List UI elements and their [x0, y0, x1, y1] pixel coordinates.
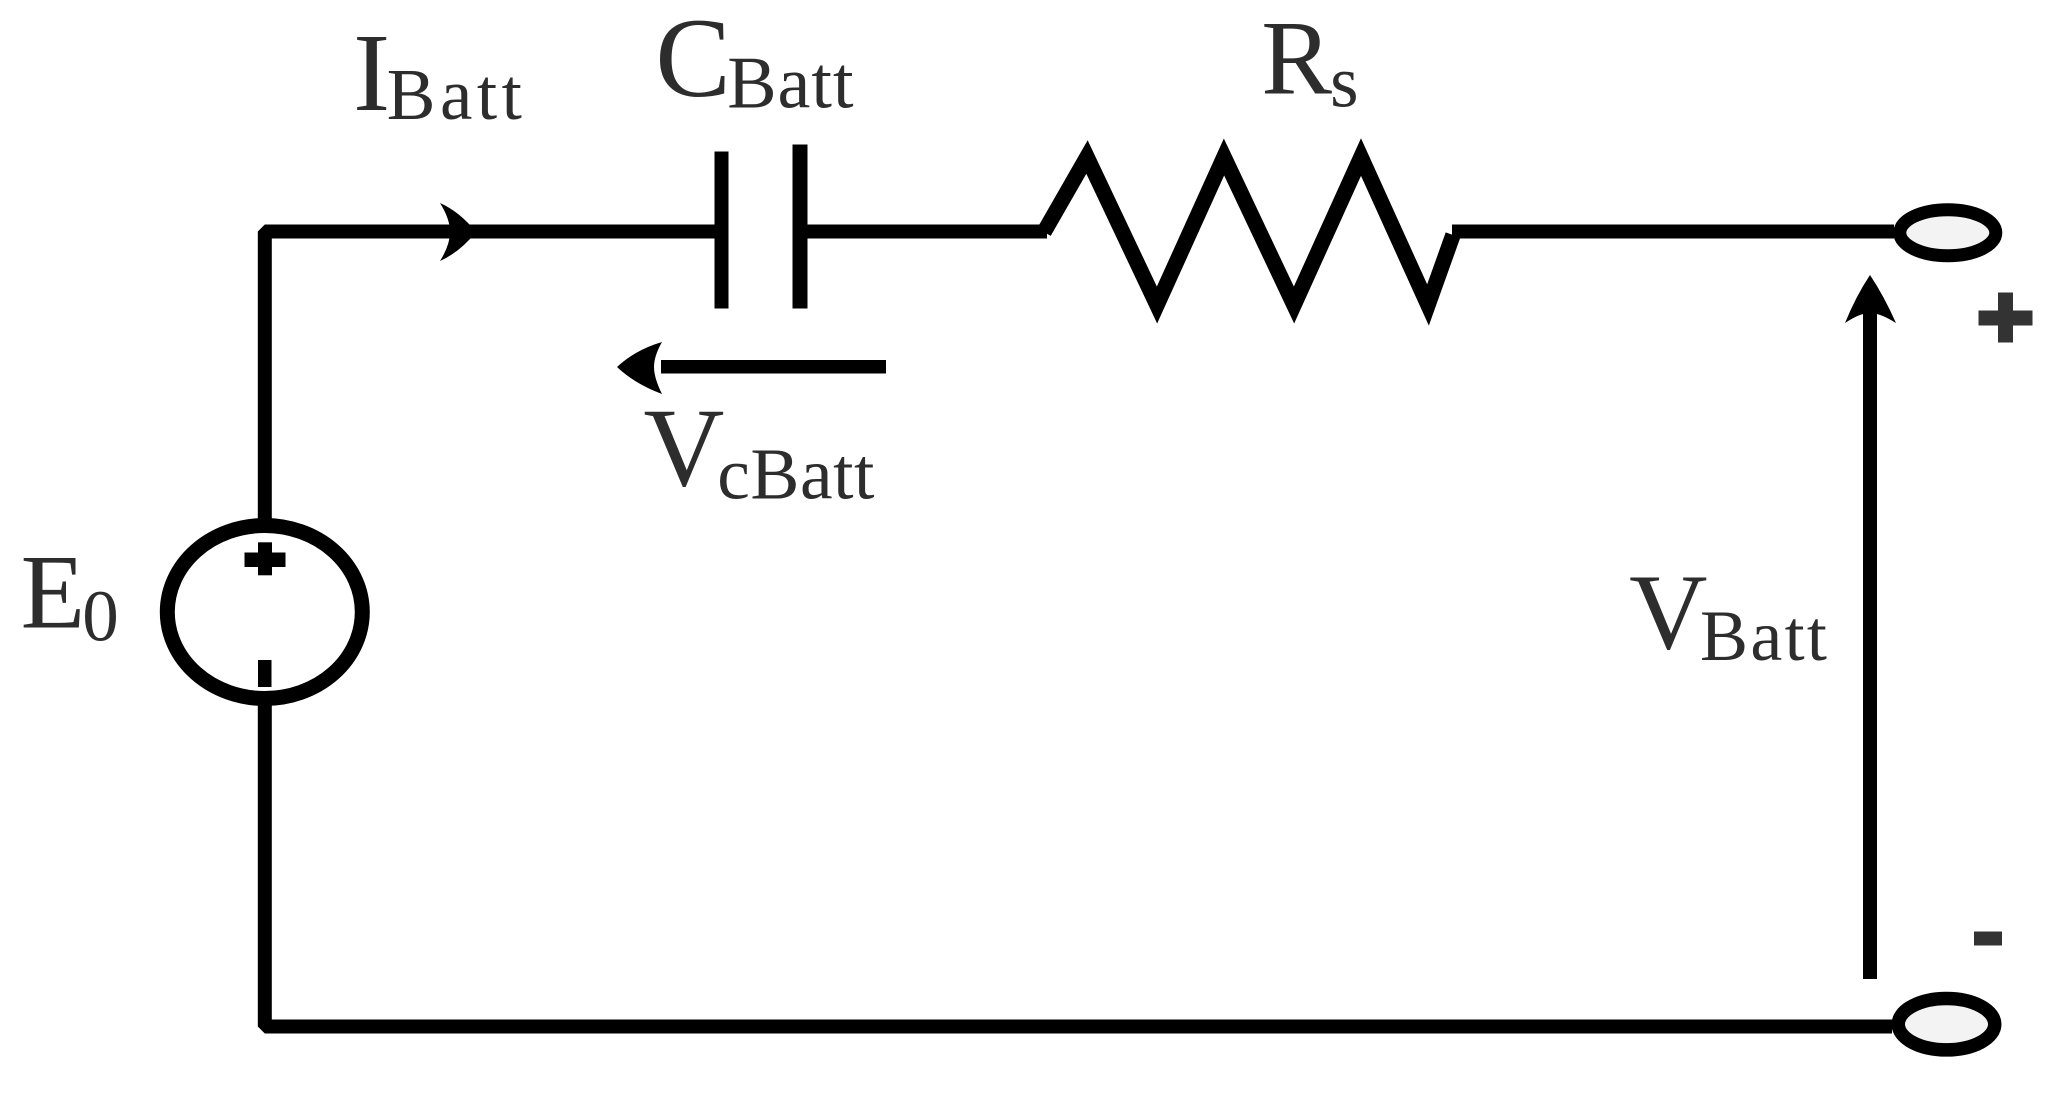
label Rs [1261, 0, 1358, 123]
voltage source E0 circle [167, 526, 362, 699]
svg-text:Batt: Batt [387, 54, 527, 135]
svg-text:V: V [644, 387, 725, 511]
svg-text:0: 0 [82, 576, 119, 657]
svg-text:s: s [1330, 42, 1358, 123]
label IBatt [353, 12, 526, 135]
wire resistor to top terminal [1452, 225, 1894, 239]
svg-text:E: E [21, 534, 85, 651]
label CBatt [655, 0, 854, 125]
terminal bottom-right [1898, 998, 1995, 1049]
svg-text:R: R [1261, 0, 1332, 117]
svg-text:Batt: Batt [727, 43, 854, 125]
terminal top-right [1900, 210, 1996, 256]
svg-text:Batt: Batt [1700, 596, 1829, 676]
voltage source minus marking [258, 660, 272, 687]
svg-text:C: C [655, 0, 730, 121]
svg-text:V: V [1629, 552, 1707, 672]
current arrow IBatt [440, 203, 476, 261]
label VcBatt [644, 387, 875, 515]
label E0 [21, 534, 119, 657]
capacitor CBatt left plate [715, 152, 729, 309]
resistor Rs [1044, 157, 1453, 305]
svg-text:I: I [353, 12, 390, 135]
voltage arrow VcBatt (head) [617, 342, 662, 394]
minus sign (bottom right) [1974, 932, 2002, 946]
wire bottom L (source bottom to bottom-right terminal) [265, 702, 1892, 1027]
plus sign (top right) [1979, 293, 2033, 343]
label VBatt [1629, 552, 1829, 676]
voltage arrow VBatt (head) [1845, 275, 1896, 323]
svg-text:cBatt: cBatt [717, 434, 875, 515]
voltage source plus marking [245, 542, 286, 575]
voltage arrow VBatt (shaft) [1863, 312, 1877, 979]
wire top-left L (top wire left segment + left vertical into source) [265, 232, 716, 523]
voltage arrow VcBatt (shaft) [661, 360, 886, 374]
wire capacitor to resistor [806, 225, 1047, 239]
capacitor CBatt right plate [793, 145, 808, 309]
